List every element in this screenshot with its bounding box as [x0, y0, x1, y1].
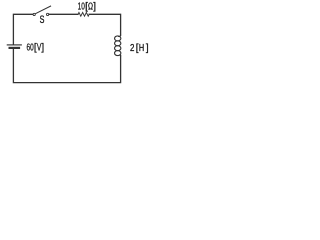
- svg-text:2: 2: [130, 43, 135, 54]
- svg-text:S: S: [40, 14, 45, 26]
- svg-text:]: ]: [93, 2, 96, 13]
- svg-text:H: H: [139, 43, 144, 54]
- svg-text:10: 10: [78, 2, 85, 13]
- svg-text:]: ]: [41, 42, 44, 53]
- svg-text:60: 60: [27, 42, 34, 53]
- svg-text:]: ]: [146, 43, 149, 54]
